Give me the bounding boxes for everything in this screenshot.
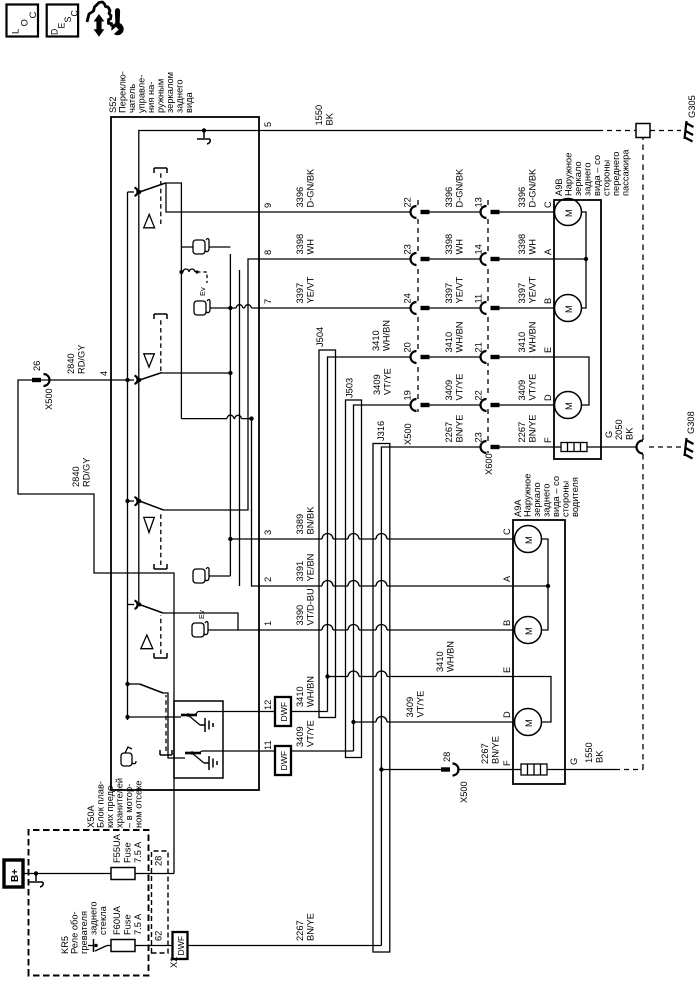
svg-text:Переклю-: Переклю- — [118, 71, 128, 113]
svg-text:D: D — [502, 711, 512, 718]
svg-text:1550: 1550 — [584, 742, 594, 763]
svg-text:ких предо-: ких предо- — [105, 783, 115, 828]
driver 1 blade — [188, 712, 223, 726]
label 3410 mid — [444, 322, 465, 353]
A9A heater element — [513, 764, 565, 775]
svg-text:Реле обо-: Реле обо- — [70, 911, 80, 954]
mirror icon A — [193, 239, 209, 255]
connector X2 dashed box — [152, 851, 169, 953]
svg-text:D-GN/BK: D-GN/BK — [455, 168, 465, 208]
svg-text:DWF: DWF — [279, 751, 289, 771]
wire 1550 from A9A-G — [565, 769, 615, 771]
DWF box pin11 — [275, 746, 291, 775]
svg-text:3390: 3390 — [295, 605, 305, 626]
jump arc on 3409 branch — [376, 717, 387, 723]
svg-text:3409: 3409 — [372, 374, 382, 395]
svg-text:вида – со: вида – со — [551, 476, 561, 517]
svg-text:X500: X500 — [459, 781, 469, 803]
battery B+ symbol — [4, 860, 23, 887]
svg-text:G305: G305 — [687, 95, 697, 118]
wire 2050 dashed to G308 — [649, 446, 682, 448]
wire 2267 branch to X500-28 — [381, 769, 441, 771]
svg-text:3410: 3410 — [371, 330, 381, 351]
driver 2 ground — [204, 756, 217, 770]
wire 3390 from S52-1 — [259, 629, 513, 631]
svg-text:заднего: заднего — [542, 483, 552, 517]
label 2267 last — [517, 415, 538, 443]
svg-text:чатель: чатель — [127, 84, 137, 113]
wire 3396 from S52-9 — [259, 211, 411, 213]
svg-text:2267: 2267 — [517, 422, 527, 443]
connector X500-20 — [411, 351, 481, 363]
svg-text:2267: 2267 — [444, 422, 454, 443]
svg-text:стороны: стороны — [561, 481, 571, 517]
svg-text:3409: 3409 — [295, 726, 305, 747]
connector column X600 dashed line — [487, 196, 489, 453]
svg-text:BK: BK — [625, 427, 635, 440]
wire 2050 BK — [601, 446, 638, 448]
svg-text:2840: 2840 — [66, 353, 76, 374]
splice dot J504 — [325, 674, 329, 678]
F60UA label — [112, 905, 143, 935]
label 2267 at A9A F — [480, 736, 501, 764]
triangle left U2 — [144, 354, 155, 367]
label 3410 at A9A E branch — [435, 641, 456, 672]
wire pin12 stub — [223, 711, 328, 713]
label 3389 first — [295, 506, 316, 535]
svg-text:YE/VT: YE/VT — [455, 276, 465, 303]
wire U2 lower branch to pin7 — [230, 307, 259, 309]
triangle left U3 — [144, 517, 155, 532]
svg-text:G: G — [604, 431, 614, 438]
connector X600-11 — [481, 302, 555, 314]
wire pin9 internal — [166, 184, 259, 213]
svg-text:– в мотор-: – в мотор- — [124, 784, 134, 828]
svg-text:управле-: управле- — [137, 75, 147, 113]
triangle right U1 — [144, 214, 155, 227]
terminal tap at B+ wire — [34, 871, 38, 875]
A9B common link E — [554, 357, 589, 405]
connector X500-26 female arc — [44, 374, 50, 386]
svg-text:Fuse: Fuse — [123, 842, 133, 863]
connector X500-26 male bar — [32, 378, 41, 382]
svg-text:L: L — [11, 29, 22, 34]
driver 1 base bar — [174, 716, 181, 718]
svg-text:VT/YE: VT/YE — [416, 691, 426, 718]
F55UA label — [112, 833, 143, 863]
wire 3410 label at pin12 — [295, 676, 316, 707]
wire 2267 splice leg J316 — [381, 447, 481, 946]
svg-text:WH/BN: WH/BN — [382, 320, 392, 351]
driver 2 base bar — [174, 757, 185, 759]
switch U2 blade — [140, 373, 163, 381]
svg-text:X50A: X50A — [86, 804, 96, 828]
svg-text:28: 28 — [442, 752, 452, 762]
driver 2 blade — [192, 751, 223, 763]
svg-text:вида: вида — [184, 91, 194, 113]
wire 3409 label at pin11 — [295, 720, 316, 747]
svg-text:62: 62 — [154, 931, 164, 941]
svg-text:12: 12 — [263, 700, 273, 710]
label 3396 first — [295, 168, 316, 208]
svg-text:Наружное: Наружное — [523, 474, 533, 517]
svg-text:2840: 2840 — [71, 466, 81, 487]
svg-text:F55UA: F55UA — [112, 833, 122, 863]
fuse F60UA — [111, 940, 135, 952]
svg-text:3410: 3410 — [444, 332, 454, 353]
connector X600-14 — [481, 253, 555, 265]
svg-text:BK: BK — [595, 750, 605, 763]
svg-text:VT/YE: VT/YE — [306, 720, 316, 747]
fold switch dashed actuator — [165, 695, 167, 751]
wire 1550 from S52-5 — [259, 130, 598, 132]
mirror icon B — [194, 300, 210, 316]
svg-text:26: 26 — [32, 361, 42, 371]
svg-text:24: 24 — [403, 293, 413, 303]
label 3396 last — [517, 168, 538, 208]
svg-text:WH/BN: WH/BN — [306, 676, 316, 707]
svg-text:Ev: Ev — [197, 610, 206, 619]
svg-text:3397: 3397 — [295, 283, 305, 304]
select contact on U1 link — [179, 270, 183, 274]
svg-text:5: 5 — [263, 122, 273, 127]
svg-text:WH: WH — [528, 239, 538, 255]
svg-text:3410: 3410 — [435, 651, 445, 672]
connector X500-28 female arc — [453, 764, 459, 776]
svg-text:водителя: водителя — [570, 477, 580, 517]
A9B label — [554, 149, 631, 196]
svg-text:F: F — [502, 760, 512, 766]
label 3391 first — [295, 554, 316, 582]
label 3396 mid — [444, 168, 465, 208]
fuse block X50A dashed box — [29, 830, 149, 976]
svg-text:3396: 3396 — [517, 187, 527, 208]
wire F60UA to DWF — [135, 945, 173, 947]
svg-text:BN/YE: BN/YE — [306, 913, 316, 941]
connector X600-23 — [481, 441, 555, 453]
svg-text:X500: X500 — [44, 388, 54, 410]
connector X500-28 male bar — [441, 767, 450, 771]
wire 2840 RD/GY feed path — [18, 380, 174, 874]
svg-text:O: O — [20, 19, 31, 26]
A9A pin letters — [502, 528, 512, 766]
svg-text:2267: 2267 — [295, 920, 305, 941]
svg-text:11: 11 — [474, 294, 484, 304]
svg-text:BN/YE: BN/YE — [528, 415, 538, 443]
triangle right U4 — [141, 635, 153, 649]
wire 2267 to A9A F — [457, 769, 513, 771]
X50A label — [86, 778, 144, 828]
svg-text:3410: 3410 — [517, 332, 527, 353]
switch U2 actuator bracket — [154, 314, 167, 319]
fuse F55UA — [111, 868, 135, 880]
svg-text:3391: 3391 — [295, 561, 305, 582]
svg-text:3397: 3397 — [517, 283, 527, 304]
wire B+ to fuse — [23, 873, 111, 875]
svg-text:F60UA: F60UA — [112, 905, 122, 935]
wire 3397 from S52-7 — [259, 307, 411, 309]
wire 3391 from S52-2 — [259, 585, 513, 587]
KR5 label — [60, 901, 108, 954]
wire fuse to X2 — [135, 873, 174, 875]
jump arcs on 3389 — [322, 534, 387, 540]
svg-text:RD/GY: RD/GY — [77, 345, 87, 374]
svg-text:WH: WH — [306, 239, 316, 255]
wire 3409 splice leg J503 — [354, 405, 412, 751]
svg-text:RD/GY: RD/GY — [82, 458, 92, 487]
svg-text:E: E — [502, 667, 512, 673]
svg-text:3409: 3409 — [517, 380, 527, 401]
label 2267 at relay — [295, 913, 316, 941]
switch U3 fixed contact arc — [135, 497, 138, 506]
svg-text:C: C — [502, 528, 512, 535]
svg-text:заднего: заднего — [175, 79, 185, 113]
jump arcs on 3390 — [322, 625, 387, 631]
svg-text:VT/YE: VT/YE — [383, 368, 393, 395]
svg-text:вида – со: вида – со — [592, 155, 602, 196]
wire 3410 splice leg J504 — [328, 357, 412, 712]
svg-text:YE/VT: YE/VT — [528, 276, 538, 303]
switch U1 blade — [140, 183, 166, 192]
svg-text:A9B: A9B — [554, 178, 564, 196]
driver 1 ground — [200, 718, 213, 732]
label 3409 at A9A D branch — [405, 691, 426, 718]
svg-text:зеркалом: зеркалом — [165, 72, 175, 113]
label 1550 BK — [314, 105, 335, 126]
wire 3389 from S52-3 — [259, 538, 513, 540]
label 3398 mid — [444, 234, 465, 255]
mirror icon A stem — [181, 246, 230, 248]
svg-text:KR5: KR5 — [60, 936, 70, 954]
svg-text:D-GN/BK: D-GN/BK — [306, 168, 316, 208]
connector column X500 dashed line — [417, 196, 419, 412]
svg-text:WH/BN: WH/BN — [528, 322, 538, 353]
svg-text:D: D — [50, 29, 60, 35]
switch U1 contact stub — [128, 191, 135, 193]
svg-text:YE/BN: YE/BN — [306, 554, 316, 582]
svg-text:WH: WH — [455, 239, 465, 255]
svg-text:J503: J503 — [345, 378, 355, 398]
svg-text:переднего: переднего — [611, 152, 621, 196]
svg-text:WH/BN: WH/BN — [446, 641, 456, 672]
ground G305 — [685, 95, 698, 141]
svg-text:BK: BK — [325, 112, 335, 125]
svg-text:D: D — [543, 394, 553, 401]
splice J503 loom rectangle — [346, 400, 362, 758]
wire 3410 branch to A9A E — [328, 676, 514, 678]
wire internal crossbar — [239, 270, 241, 586]
switch U2 fixed contact arc — [135, 376, 138, 385]
svg-text:1550: 1550 — [314, 105, 324, 126]
label 3397 mid — [444, 276, 465, 303]
rail junction dots — [125, 378, 129, 382]
switch U4 actuator bracket — [154, 653, 167, 658]
label 3409 before X500 — [372, 368, 393, 395]
svg-text:VT/D-BU: VT/D-BU — [306, 588, 316, 625]
switch U1 fixed contact arc — [135, 188, 138, 197]
mirror icon B stem — [210, 307, 230, 309]
svg-text:ном отсеке: ном отсеке — [134, 780, 144, 828]
A9A motor M3 — [515, 709, 542, 736]
svg-text:A9A: A9A — [513, 499, 523, 517]
switch U3 actuator dashed — [160, 512, 162, 565]
A9B mirror box — [554, 200, 601, 459]
connector X600-13 — [481, 206, 555, 218]
svg-text:3396: 3396 — [295, 187, 305, 208]
mirror icon C stem — [209, 575, 230, 577]
switch U1 actuator dashed — [160, 172, 162, 224]
svg-text:3398: 3398 — [517, 234, 527, 255]
svg-text:M: M — [524, 627, 534, 635]
connector X500-23 — [411, 253, 481, 265]
svg-text:3409: 3409 — [444, 380, 454, 401]
svg-text:21: 21 — [474, 342, 484, 352]
label 2840 upper — [66, 345, 87, 374]
svg-text:VT/YE: VT/YE — [528, 374, 538, 401]
node on crossbar — [249, 416, 253, 420]
wire U3 output — [164, 259, 260, 510]
svg-text:23: 23 — [474, 432, 484, 442]
mirror fold icon — [121, 747, 136, 766]
svg-text:C: C — [70, 10, 80, 17]
label 2267 mid — [444, 415, 465, 443]
wire U2 output to crossbar — [162, 372, 230, 374]
label 3409 mid — [444, 374, 465, 401]
switch U3 contact stub — [128, 500, 135, 502]
svg-text:14: 14 — [474, 244, 484, 254]
A9A motor M2 — [515, 617, 542, 644]
svg-text:J504: J504 — [315, 327, 325, 347]
terminal tap symbol at pin5 rail — [197, 131, 210, 145]
switch U4 actuator dashed — [160, 615, 162, 654]
S52 label — [108, 71, 194, 113]
svg-text:D-GN/BK: D-GN/BK — [528, 168, 538, 208]
svg-text:Fuse: Fuse — [123, 914, 133, 935]
connector X500-22 — [411, 206, 481, 218]
A9A mirror box — [513, 520, 565, 784]
svg-text:зеркало: зеркало — [573, 161, 583, 196]
svg-text:Блок плав-: Блок плав- — [96, 781, 106, 828]
svg-text:A: A — [543, 248, 553, 255]
A9A common link A — [513, 539, 548, 630]
svg-text:M: M — [524, 719, 534, 727]
switch U4 blade — [140, 605, 164, 614]
switch U2 blade on pin4 feed — [111, 379, 134, 381]
mirror icon C — [193, 568, 209, 584]
svg-text:WH/BN: WH/BN — [455, 322, 465, 353]
svg-text:28: 28 — [154, 856, 164, 866]
svg-text:E: E — [543, 347, 553, 353]
svg-text:хранителей: хранителей — [115, 778, 125, 828]
label 3390 first — [295, 588, 316, 625]
wire 2267 from relay to J316 — [188, 945, 382, 947]
switch U4 fixed contact arc — [135, 601, 138, 610]
wire fold switch to driver box — [163, 693, 174, 758]
wire 1550 dashed to G305 — [650, 130, 681, 132]
svg-text:G308: G308 — [686, 411, 696, 434]
svg-text:9: 9 — [263, 203, 273, 208]
splice dot J316 — [379, 767, 383, 771]
A9B motor M1 — [555, 199, 582, 226]
svg-text:3: 3 — [263, 530, 273, 535]
svg-text:22: 22 — [403, 197, 413, 207]
svg-text:заднего: заднего — [89, 901, 99, 935]
svg-text:VT/YE: VT/YE — [455, 374, 465, 401]
svg-text:Ev: Ev — [198, 287, 207, 296]
svg-text:B: B — [502, 620, 512, 626]
wire crossbar to pin2 — [252, 419, 260, 586]
label 3409 last — [517, 374, 538, 401]
svg-text:BN/BK: BN/BK — [306, 506, 316, 535]
svg-text:2050: 2050 — [614, 419, 624, 440]
connector X500-19 — [411, 399, 481, 411]
ground G308 — [685, 411, 697, 458]
A9B motor M3 — [555, 392, 582, 419]
svg-text:3396: 3396 — [444, 187, 454, 208]
svg-text:DWF: DWF — [279, 702, 289, 722]
svg-text:F: F — [543, 437, 553, 443]
wire U4 output — [163, 613, 259, 630]
A9A motor M1 — [515, 526, 542, 553]
wire 3409 branch to A9A D — [354, 721, 514, 723]
jump arc of ground run over 2050 wire — [637, 441, 644, 454]
svg-text:3397: 3397 — [444, 283, 454, 304]
label 3410 before X500 — [371, 320, 392, 351]
svg-text:7.5 A: 7.5 A — [133, 913, 143, 935]
svg-text:20: 20 — [403, 342, 413, 352]
svg-text:ния на-: ния на- — [146, 82, 156, 113]
S52 pin numbers bottom edge — [263, 122, 273, 750]
A9A common link E — [513, 677, 551, 723]
svg-text:11: 11 — [263, 740, 273, 750]
svg-text:1: 1 — [263, 621, 273, 626]
splice square on 1550 wire — [636, 124, 650, 138]
wire pin11 stub — [223, 750, 354, 752]
svg-text:M: M — [564, 402, 574, 410]
S52 switch box outline — [111, 117, 259, 790]
A9A label — [513, 474, 580, 517]
S52 internal ground rail from pin 5 — [139, 131, 259, 605]
svg-text:22: 22 — [474, 390, 484, 400]
label 3398 first — [295, 234, 316, 255]
svg-text:стекла: стекла — [98, 905, 108, 935]
svg-text:3410: 3410 — [295, 686, 305, 707]
svg-text:пассажира: пассажира — [621, 149, 631, 196]
svg-text:YE/VT: YE/VT — [306, 276, 316, 303]
svg-text:Наружное: Наружное — [564, 153, 574, 196]
splice J504 loom rectangle — [319, 350, 336, 718]
DESC link box — [47, 5, 80, 37]
svg-text:BN/YE: BN/YE — [455, 415, 465, 443]
svg-text:7: 7 — [263, 299, 273, 304]
connector X600-21 — [481, 351, 555, 363]
A9B heater element — [554, 443, 601, 452]
wire U1 drop with jump arcs — [181, 418, 251, 420]
svg-text:7.5 A: 7.5 A — [133, 841, 143, 863]
svg-text:3398: 3398 — [444, 234, 454, 255]
svg-text:3398: 3398 — [295, 234, 305, 255]
svg-text:гревателя: гревателя — [79, 911, 89, 954]
wire 1550 dashed to ground run — [615, 769, 643, 771]
label 3398 last — [517, 234, 538, 255]
wire rail tap to driver box — [128, 716, 175, 718]
svg-text:4: 4 — [99, 371, 109, 376]
splice J316 loom rectangle — [373, 444, 390, 953]
svg-text:S52: S52 — [108, 96, 118, 113]
label 3397 last — [517, 276, 538, 303]
label 3410 last — [517, 322, 538, 353]
A9B motor M2 — [555, 295, 582, 322]
